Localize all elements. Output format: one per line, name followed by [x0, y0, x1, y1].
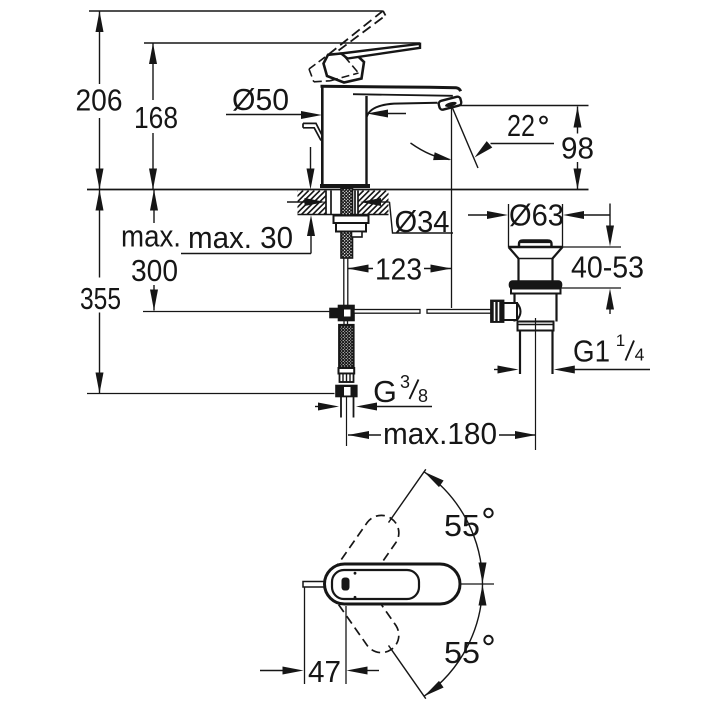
svg-text:98: 98	[561, 132, 594, 166]
svg-text:168: 168	[134, 101, 178, 135]
svg-text:4: 4	[635, 345, 645, 365]
svg-text:55: 55	[444, 509, 480, 543]
svg-text:G: G	[373, 375, 397, 409]
svg-text:40-53: 40-53	[571, 251, 644, 285]
svg-text:8: 8	[418, 386, 428, 406]
svg-text:1: 1	[616, 331, 625, 350]
svg-text:max. 30: max. 30	[188, 221, 293, 255]
svg-text:3: 3	[400, 372, 410, 392]
svg-text:22: 22	[507, 109, 535, 143]
svg-text:max.180: max.180	[383, 417, 497, 451]
svg-text:Ø34: Ø34	[395, 205, 450, 239]
svg-text:Ø63: Ø63	[509, 199, 564, 233]
svg-text:Ø50: Ø50	[232, 83, 289, 117]
svg-text:355: 355	[80, 282, 121, 316]
svg-text:max.: max.	[121, 220, 181, 254]
svg-text:300: 300	[131, 254, 178, 288]
svg-text:47: 47	[308, 655, 341, 689]
svg-text:123: 123	[375, 253, 422, 287]
svg-text:55: 55	[444, 636, 480, 670]
svg-text:206: 206	[76, 84, 123, 118]
svg-text:G1: G1	[573, 335, 610, 369]
